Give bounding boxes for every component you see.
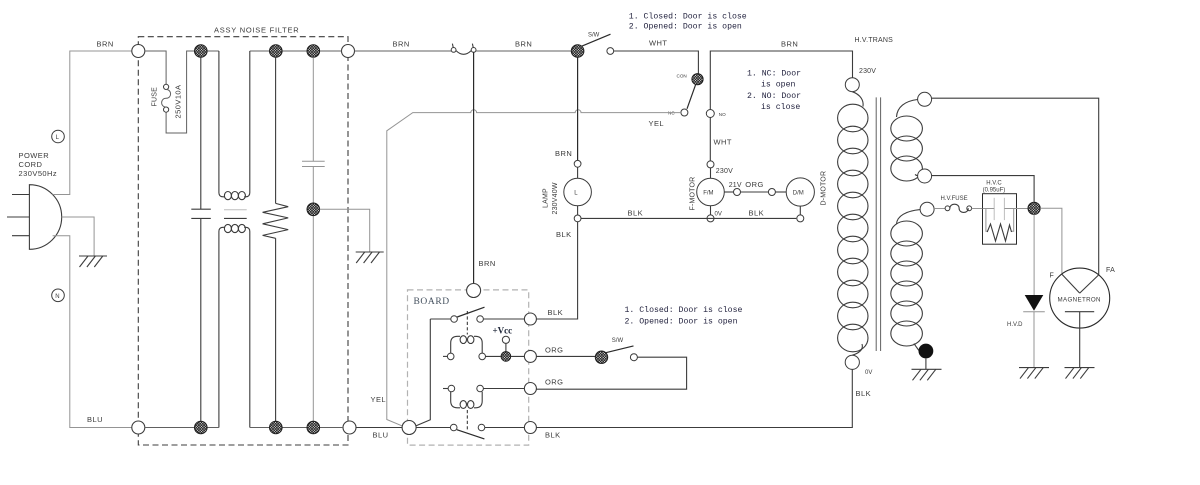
relay actuator dashed link 1 — [466, 311, 468, 335]
node lamp bottom — [574, 215, 581, 222]
junction (top rail, R1) — [270, 45, 283, 58]
wire F/M right 21V tap — [724, 189, 786, 196]
svg-text:230V40W: 230V40W — [552, 182, 559, 214]
svg-text:ORG: ORG — [545, 378, 563, 387]
wire — [577, 167, 579, 178]
capacitor C2 — [302, 57, 325, 421]
transformer HV winding — [891, 210, 923, 351]
resistor R1 — [263, 57, 289, 421]
junction HV node — [1028, 202, 1040, 214]
wire chassis stem — [925, 358, 927, 369]
wire case ground — [320, 209, 370, 251]
svg-text:H.V.TRANS: H.V.TRANS — [855, 37, 894, 44]
terminal board right ORG 2 — [524, 383, 536, 395]
ground (power cord) — [79, 256, 107, 267]
svg-text:21V: 21V — [729, 182, 742, 189]
svg-text:2. Opened: Door is open: 2. Opened: Door is open — [625, 316, 738, 326]
junction (case ground) — [307, 203, 320, 216]
terminal board right BLK — [524, 313, 536, 325]
fuse F1 250V10A — [162, 84, 171, 112]
wire BRN vertical to board — [473, 52, 475, 283]
svg-text:is close: is close — [761, 102, 800, 112]
switch S/W2 monitor CON — [677, 74, 704, 109]
node HV winding bottom (chassis) — [919, 344, 934, 359]
svg-text:BRN: BRN — [479, 259, 496, 268]
power plug P1 — [7, 185, 62, 250]
svg-text:ASSY NOISE FILTER: ASSY NOISE FILTER — [214, 26, 299, 35]
motor D/M U3 — [786, 178, 814, 206]
wire +Vcc down — [505, 343, 507, 351]
svg-text:0V: 0V — [715, 212, 722, 218]
relay contact RY2 — [416, 424, 525, 439]
junction +Vcc/coil — [501, 352, 511, 362]
node lamp top — [574, 160, 581, 167]
node 230V F-motor top — [707, 161, 714, 168]
wire BLU filter to board — [356, 427, 402, 429]
svg-text:230V50Hz: 230V50Hz — [19, 169, 58, 178]
wire lamp bottom — [577, 206, 579, 215]
annotation NC NO note — [747, 70, 801, 113]
svg-text:2. NO: Door: 2. NO: Door — [747, 92, 801, 101]
wire BLK lamp to motors — [581, 217, 796, 219]
wire WHT S/W1 to CON — [614, 51, 699, 73]
svg-text:(0.95uF): (0.95uF) — [983, 188, 1006, 194]
svg-text:F: F — [1050, 273, 1054, 280]
junction (top rail, C1) — [195, 45, 208, 58]
svg-text:LAMP: LAMP — [543, 188, 550, 208]
wire HV node to magnetron F — [1040, 208, 1062, 274]
fuse H.V.FUSE F2 — [945, 204, 972, 212]
svg-text:WHT: WHT — [714, 138, 732, 147]
svg-text:BLK: BLK — [628, 209, 644, 218]
svg-text:BLK: BLK — [856, 389, 872, 398]
wire L: plug to top rail — [53, 51, 132, 195]
inductor choke winding W2 — [219, 224, 250, 427]
svg-text:POWER: POWER — [19, 151, 50, 160]
svg-text:FUSE: FUSE — [152, 87, 159, 107]
svg-text:BLK: BLK — [545, 431, 561, 440]
noise filter box — [138, 37, 348, 445]
terminal (filter top-right) — [342, 45, 355, 58]
wire coil2 to ORG terminal 2 — [483, 388, 524, 390]
resistor bleeder — [987, 224, 1011, 241]
node NO — [706, 110, 726, 118]
svg-text:H.V.D: H.V.D — [1007, 322, 1023, 328]
svg-text:S/W: S/W — [612, 338, 624, 344]
node 0V — [707, 215, 714, 222]
wire BLK board to transformer — [536, 369, 852, 427]
terminal (filter bottom-left) — [132, 421, 145, 434]
terminal (filter bottom-right) — [343, 421, 356, 434]
svg-text:2. Opened: Door is open: 2. Opened: Door is open — [629, 22, 742, 32]
node filament winding top — [918, 92, 932, 106]
relay coil RY1 — [443, 336, 486, 360]
wire ORG board to S/W3 — [536, 355, 595, 357]
svg-text:BOARD: BOARD — [414, 297, 450, 307]
transformer T1 primary winding — [838, 92, 868, 356]
svg-text:D-MOTOR: D-MOTOR — [821, 171, 828, 206]
wire WHT NO to F-motor — [709, 118, 711, 161]
ground (H.V.D) — [1019, 368, 1049, 379]
svg-text:YEL: YEL — [371, 395, 387, 404]
svg-text:F-MOTOR: F-MOTOR — [690, 177, 697, 211]
wire top rail inside filter — [207, 50, 341, 52]
lamp branch: wire from S/W1 down — [577, 57, 579, 160]
wire fuse to HVC — [972, 208, 983, 210]
svg-text:N: N — [55, 294, 59, 300]
diode H.V.D — [1023, 295, 1045, 368]
svg-text:BLK: BLK — [556, 230, 572, 239]
svg-text:BLU: BLU — [373, 431, 389, 440]
wire earth: plug to ground — [62, 217, 94, 256]
svg-text:1. Closed: Door is close: 1. Closed: Door is close — [625, 305, 743, 315]
node D/M bottom — [797, 215, 804, 222]
svg-text:BLU: BLU — [87, 415, 103, 424]
svg-text:250V10A: 250V10A — [174, 84, 183, 118]
wire HV node to diode — [1033, 214, 1035, 295]
capacitor C1 — [191, 57, 211, 421]
node transformer primary top — [845, 78, 859, 92]
svg-text:230V: 230V — [716, 168, 733, 175]
junction (top rail, C2) — [307, 45, 320, 58]
wire YEL (NC line with hops) — [387, 110, 681, 427]
label POWER CORD 230V50Hz — [19, 151, 58, 178]
board box — [408, 290, 529, 445]
switch S/W3 (secondary interlock) — [595, 338, 637, 364]
node NC — [668, 109, 688, 116]
annotation door note (middle) — [625, 305, 743, 326]
svg-text:YEL: YEL — [649, 119, 665, 128]
relay actuator dashed link 2 — [466, 410, 468, 431]
transformer core — [876, 97, 880, 351]
svg-text:H.V.FUSE: H.V.FUSE — [941, 196, 968, 202]
svg-text:BRN: BRN — [555, 149, 572, 158]
wire D/M bottom — [799, 206, 801, 215]
svg-text:1. NC: Door: 1. NC: Door — [747, 70, 801, 79]
wire ORG return loop — [536, 357, 686, 389]
inductor choke winding W1 — [219, 51, 250, 200]
terminal board left (BLU/YEL) — [402, 421, 416, 435]
svg-text:BLK: BLK — [749, 209, 765, 218]
ground (filter case) — [356, 252, 384, 263]
svg-text:D/M: D/M — [793, 191, 804, 197]
wire HV winding to fuse — [934, 208, 945, 210]
motor F/M U2 — [697, 178, 725, 206]
svg-text:CORD: CORD — [19, 160, 43, 169]
thermal cutout TCO — [451, 44, 476, 55]
svg-text:+Vcc: +Vcc — [493, 326, 513, 336]
junction (bottom rail, R1) — [270, 421, 283, 434]
node +Vcc — [502, 336, 509, 343]
svg-text:BLK: BLK — [548, 308, 564, 317]
svg-text:BRN: BRN — [97, 40, 114, 49]
svg-text:BRN: BRN — [515, 40, 532, 49]
choke core lines — [224, 209, 247, 211]
svg-text:ORG: ORG — [745, 180, 763, 189]
svg-text:NO: NO — [719, 112, 726, 117]
wire top rail BRN filter to TCO — [355, 50, 452, 52]
node transformer primary bottom 0V — [845, 355, 859, 369]
svg-text:0V: 0V — [865, 370, 872, 376]
magnetron U4 — [1050, 268, 1110, 368]
wire BLK lamp down to board — [536, 222, 577, 319]
svg-text:F/M: F/M — [703, 191, 713, 197]
transformer filament winding — [891, 100, 923, 182]
ground (HV winding) — [912, 369, 942, 380]
relay coil RY2 — [443, 385, 483, 408]
switch S/W1 (primary interlock) — [571, 33, 613, 58]
svg-text:MAGNETRON: MAGNETRON — [1058, 297, 1101, 304]
wire F/M bottom — [710, 206, 712, 215]
svg-text:BRN: BRN — [393, 40, 410, 49]
node L — [52, 130, 65, 143]
ground (magnetron) — [1065, 368, 1095, 379]
svg-text:230V: 230V — [859, 68, 876, 75]
wire to F/M — [710, 168, 712, 178]
terminal board top (BRN) — [467, 284, 481, 298]
wire coil to ORG terminal — [486, 355, 525, 357]
terminal board right ORG 1 — [524, 350, 536, 362]
svg-text:is open: is open — [761, 80, 795, 90]
wire top rail TCO to S/W1 — [476, 50, 571, 52]
capacitor plates — [983, 198, 1029, 220]
lamp L1 — [564, 178, 592, 206]
junction (bottom rail, C2) — [307, 421, 320, 434]
node N — [52, 289, 65, 302]
wire bleeder loop — [986, 209, 1014, 232]
terminal board right BLK 2 — [524, 422, 536, 434]
wire N: plug to bottom rail — [53, 236, 132, 428]
node filament winding bottom — [918, 169, 932, 183]
wire filament bottom to HV node — [932, 176, 1035, 202]
node HV winding top — [920, 202, 934, 216]
svg-text:H.V.C: H.V.C — [986, 180, 1002, 186]
svg-text:FA: FA — [1106, 267, 1115, 274]
svg-text:WHT: WHT — [649, 39, 667, 48]
svg-text:1. Closed: Door is close: 1. Closed: Door is close — [629, 12, 747, 22]
svg-text:S/W: S/W — [588, 33, 600, 39]
capacitor H.V.C box — [983, 194, 1017, 245]
svg-text:CON: CON — [677, 74, 687, 79]
wire filament top to magnetron FA — [932, 98, 1099, 275]
wire board left down — [413, 319, 430, 427]
wire bottom rail inside filter — [145, 427, 343, 429]
wire BRN rail to transformer — [710, 51, 852, 110]
annotation door note (top) — [629, 12, 747, 32]
junction (bottom rail, C1) — [195, 421, 208, 434]
svg-text:ORG: ORG — [545, 346, 563, 355]
relay contact RY1 — [430, 307, 524, 322]
svg-text:BRN: BRN — [781, 40, 798, 49]
wire fuse detour — [145, 51, 195, 133]
terminal (filter top-left) — [132, 45, 145, 58]
